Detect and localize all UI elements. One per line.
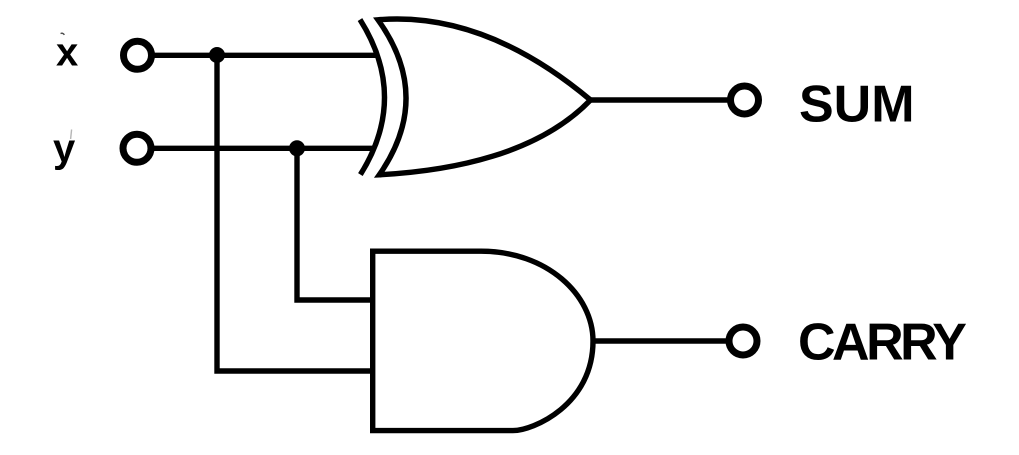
svg-text:CARRY: CARRY [798,314,966,372]
junction dot y node [289,140,305,156]
wire x input [155,53,379,58]
XOR gate U1 back arc [360,20,385,175]
wire SUM output [591,97,729,102]
wire y input [154,146,376,151]
svg-text:SUM: SUM [799,76,915,134]
artifact speck above x [61,33,65,35]
junction dot x node [209,47,225,63]
CARRY terminal [729,327,757,355]
input terminal y [123,134,151,162]
svg-text:y: y [53,127,76,171]
XOR gate U1 body [378,19,591,175]
artifact speck above y [71,130,72,140]
wire x branch down to AND [217,55,373,371]
AND gate U2 body [373,251,593,430]
svg-text:x: x [56,31,78,75]
input terminal x [124,41,152,69]
wire CARRY output [593,338,728,343]
wire y branch down to AND [297,148,373,300]
SUM terminal [731,86,759,114]
